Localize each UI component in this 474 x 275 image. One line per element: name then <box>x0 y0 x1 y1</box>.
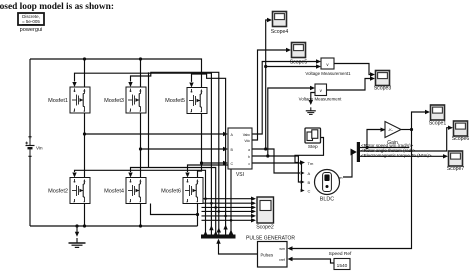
arrow gate M6 <box>185 173 189 178</box>
arrow pulses into demux <box>216 239 220 244</box>
svg-text:Vabc: Vabc <box>243 133 251 137</box>
wire left DC rail bottom <box>29 156 31 226</box>
wire VSI a to BLDC A <box>252 149 300 173</box>
Gain block <box>385 122 401 147</box>
svg-text:Mosfet6: Mosfet6 <box>161 188 181 194</box>
arrow VM ground <box>309 100 313 105</box>
svg-text:Scope2: Scope2 <box>256 225 274 231</box>
wire wm riser to Gain <box>367 130 385 148</box>
svg-text:Voltage Measurement1: Voltage Measurement1 <box>305 71 351 76</box>
arrow Scope3 in2 <box>370 76 375 80</box>
arrow VM plus <box>310 86 315 90</box>
svg-text:Pulses: Pulses <box>261 253 274 258</box>
mosfet M1 <box>70 87 90 113</box>
arrow riser 1 <box>203 231 207 236</box>
junction VM1 minus branch <box>264 65 267 68</box>
arrow pulse gen xref <box>288 257 293 261</box>
junction pulse2 scope tap <box>210 202 213 205</box>
junction bus-drain M1 <box>83 57 86 60</box>
wire VSI Vab to VoltageMeasurement1 plus <box>252 62 316 135</box>
wire phase B node <box>140 113 142 178</box>
wire VSI c to BLDC C <box>252 163 302 191</box>
demux bar <box>201 235 236 239</box>
wire phase B to VSI <box>141 148 225 150</box>
arrow gate M5 <box>189 83 193 88</box>
wire gate feed Mosfet6 <box>131 168 216 236</box>
svg-text:Scope1: Scope1 <box>429 121 447 127</box>
arrow scope2 in6 <box>251 218 256 222</box>
arrow gate M4 <box>128 173 132 178</box>
wire phase A node <box>84 113 86 178</box>
mosfet M6 <box>183 178 203 204</box>
arrow riser 3 <box>214 231 218 236</box>
ground (inverter) <box>69 226 86 247</box>
arrow VSI input B <box>223 147 228 151</box>
wire gate feed Mosfet1 <box>75 73 212 235</box>
arrow into Scope6 <box>448 126 453 130</box>
wire VM ground link <box>311 93 315 104</box>
wire scope2 tap 2 <box>202 202 252 204</box>
junction a-line riser <box>264 147 267 150</box>
junction phase B tap <box>139 147 142 150</box>
svg-text:Tm: Tm <box>308 161 314 166</box>
wire pulses output to demux <box>219 244 258 255</box>
wire drain drop Mosfet3 <box>140 59 142 87</box>
junction b-line riser <box>266 154 269 157</box>
svg-text:B: B <box>308 180 311 185</box>
scope Scope5 <box>292 43 306 58</box>
svg-text:Vin: Vin <box>36 145 43 150</box>
wire rotor angle to Scope6 <box>360 128 448 151</box>
wire b branch riser to VoltageMeasurement plus <box>268 88 310 156</box>
scope Scope7 <box>449 151 463 166</box>
junction pulse5 scope tap <box>224 215 227 218</box>
svg-text:Mosfet5: Mosfet5 <box>165 98 185 104</box>
svg-text:wm: wm <box>279 247 285 251</box>
svg-text:b: b <box>248 155 250 159</box>
wire speed ref to pulse generator xref <box>292 259 334 263</box>
svg-text:PULSE GENERATOR: PULSE GENERATOR <box>246 236 295 242</box>
junction ground tap <box>75 224 78 227</box>
mosfet M5 <box>187 88 207 114</box>
junction gain output <box>410 128 413 131</box>
svg-text:Speed Ref: Speed Ref <box>329 251 352 257</box>
ground (voltage measurement) <box>306 107 316 114</box>
arrow into Scope7 <box>443 154 448 158</box>
arrow VM1 plus <box>316 59 321 63</box>
svg-text:Mosfet3: Mosfet3 <box>104 98 124 104</box>
svg-text:powergui: powergui <box>20 27 43 33</box>
arrow scope2 in4 <box>251 209 256 213</box>
Voltage Measurement <box>299 84 342 102</box>
arrow riser 2 <box>209 225 213 230</box>
wire Gain out junction <box>401 129 412 131</box>
svg-text:Voltage Measurement: Voltage Measurement <box>299 97 342 102</box>
VSI measurement block <box>228 128 252 178</box>
arrow VSI input C <box>223 161 228 165</box>
wire to Scope1 <box>412 112 426 130</box>
wire source drop Mosfet2 <box>84 203 86 226</box>
wire gate feed Mosfet2 <box>188 165 232 235</box>
arrow into Gain <box>381 128 386 132</box>
wire VoltageMeasurement to Scope3 <box>327 79 371 91</box>
junction phase A tap <box>83 132 86 135</box>
svg-text:Vdc: Vdc <box>244 139 250 143</box>
svg-text:C: C <box>308 189 311 194</box>
arrow riser 6 <box>229 230 233 235</box>
junction M2 source on bus <box>83 224 86 227</box>
wire Step to BLDC Tm <box>295 138 324 163</box>
mosfet M4 <box>126 178 146 204</box>
svg-text:Scope6: Scope6 <box>452 136 470 142</box>
wire phase A to VSI <box>85 133 225 135</box>
svg-text:Step: Step <box>308 144 318 150</box>
junction pulse1 scope tap <box>204 197 207 200</box>
Step block <box>305 128 321 150</box>
arrow Scope3 in1 <box>370 72 375 76</box>
arrow into Scope1 <box>425 110 430 114</box>
svg-text:Mosfet2: Mosfet2 <box>48 188 68 194</box>
wire measurement link Mosfet4-Mosfet6 <box>151 204 198 215</box>
svg-text:losed loop model is as shown:: losed loop model is as shown: <box>0 2 114 12</box>
svg-text:a: a <box>248 148 250 152</box>
wire bottom bus <box>30 225 198 227</box>
arrow BLDC Tm <box>300 160 305 164</box>
svg-text:<Electromagnetic torque Te (N*: <Electromagnetic torque Te (N*m)> <box>361 153 432 158</box>
wire gate feed Mosfet5 <box>192 74 226 235</box>
junction bus-drain M3 <box>139 57 142 60</box>
wire drain drop Mosfet1 <box>84 59 86 87</box>
svg-text:Scope7: Scope7 <box>447 166 465 172</box>
junction M4 source on bus <box>139 224 142 227</box>
svg-text:xref: xref <box>279 258 285 262</box>
Voltage Measurement1 <box>305 58 351 76</box>
svg-text:VSI: VSI <box>236 172 244 178</box>
wire left DC rail top <box>29 59 31 139</box>
arrow pulse gen wm <box>288 246 293 250</box>
arrow BLDC B <box>301 180 305 183</box>
svg-text:BLDC: BLDC <box>320 197 334 203</box>
wire top DC bus <box>30 59 202 88</box>
wire a branch riser to Scope4 and VM1 minus <box>266 20 267 149</box>
arrow scope2 in2 <box>251 201 256 205</box>
svg-text:Scope4: Scope4 <box>271 29 289 35</box>
scope Scope2 <box>256 197 274 231</box>
arrow riser 5 <box>223 225 227 230</box>
arrow scope2 in5 <box>251 214 256 218</box>
svg-text:-K-: -K- <box>388 128 394 132</box>
wire torque Te to Scope7 <box>360 155 444 157</box>
wire wm feedback to pulse generator <box>292 130 412 249</box>
svg-text:1540: 1540 <box>337 263 348 269</box>
DC source Vin <box>25 137 34 157</box>
wire rotor speed wm <box>360 147 409 149</box>
wire gate feed Mosfet2 long <box>75 170 206 235</box>
arrow scope2 in3 <box>251 205 256 209</box>
pulse generator block <box>258 242 288 268</box>
junction wm-gain tap <box>365 146 368 149</box>
mosfet M2 <box>70 178 90 204</box>
wire VSI Vdc to Scope5 <box>252 50 286 140</box>
wire phase C to VSI <box>202 162 225 164</box>
scope Scope4 <box>273 12 287 27</box>
arrow BLDC C <box>301 189 305 192</box>
wire VoltageMeasurement1 to Scope3 <box>334 64 370 75</box>
wire BLDC m to bus selector <box>343 152 353 177</box>
svg-text:C: C <box>231 162 234 166</box>
arrow into bus selector <box>351 149 357 156</box>
arrow scope2 in1 <box>251 197 256 201</box>
wire source drop Mosfet6 <box>197 204 199 226</box>
constant 1540 <box>329 251 352 270</box>
BLDC motor <box>308 161 344 203</box>
arrow VSI input A <box>223 132 228 136</box>
svg-text:Mosfet1: Mosfet1 <box>48 98 68 104</box>
wire source drop Mosfet4 <box>140 204 142 226</box>
arrow into Scope5 <box>286 48 291 52</box>
junction pulse3 scope tap <box>214 206 217 209</box>
powergui block <box>18 13 44 33</box>
wire scope2 tap 5 <box>202 215 252 217</box>
arrow riser 4 <box>217 228 221 233</box>
wire phase C node <box>198 113 202 178</box>
wire scope2 tap 4 <box>202 210 252 212</box>
wire scope2 tap 1 <box>202 198 252 200</box>
scope Scope1 <box>431 105 445 120</box>
arrow BLDC A <box>301 171 305 174</box>
scope Scope6 <box>454 121 468 136</box>
arrow VM1 minus <box>316 64 321 68</box>
bus selector <box>357 142 360 162</box>
svg-text:= 5e-005: = 5e-005 <box>22 19 40 24</box>
junction pulse4 scope tap <box>218 210 221 213</box>
wire scope2 tap 3 <box>202 206 252 208</box>
arrow gate M3 <box>128 82 132 87</box>
junction pulse6 scope tap <box>230 219 233 222</box>
junction M6 link <box>196 213 199 216</box>
wire VSI b to BLDC B <box>252 156 301 182</box>
arrow gate M1 <box>72 82 76 87</box>
arrow gate M2 <box>72 173 76 178</box>
svg-text:Scope3: Scope3 <box>374 86 392 92</box>
svg-text:Mosfet4: Mosfet4 <box>104 188 124 194</box>
wire scope2 tap 6 <box>202 219 252 221</box>
svg-text:A: A <box>308 171 311 176</box>
scope Scope3 <box>376 71 390 86</box>
mosfet M3 <box>126 87 146 113</box>
junction phase C tap <box>200 161 203 164</box>
wire gate feed Mosfet3 <box>131 72 219 235</box>
arrow into Scope4 <box>267 18 272 22</box>
wire gate feed Mosfet4 drop <box>148 72 150 167</box>
svg-text:Scope5: Scope5 <box>290 60 308 66</box>
